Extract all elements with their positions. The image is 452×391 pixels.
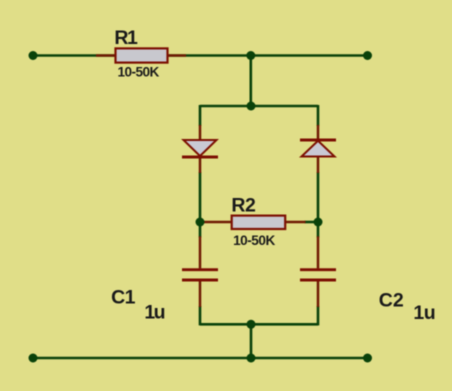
svg-text:1u: 1u (144, 301, 165, 323)
svg-text:C1: C1 (111, 287, 136, 309)
svg-text:R1: R1 (114, 27, 138, 49)
svg-text:R2: R2 (231, 195, 256, 217)
svg-text:10-50K: 10-50K (233, 233, 275, 248)
svg-text:1u: 1u (413, 302, 435, 324)
svg-text:10-50K: 10-50K (118, 65, 160, 80)
svg-text:C2: C2 (379, 289, 404, 311)
